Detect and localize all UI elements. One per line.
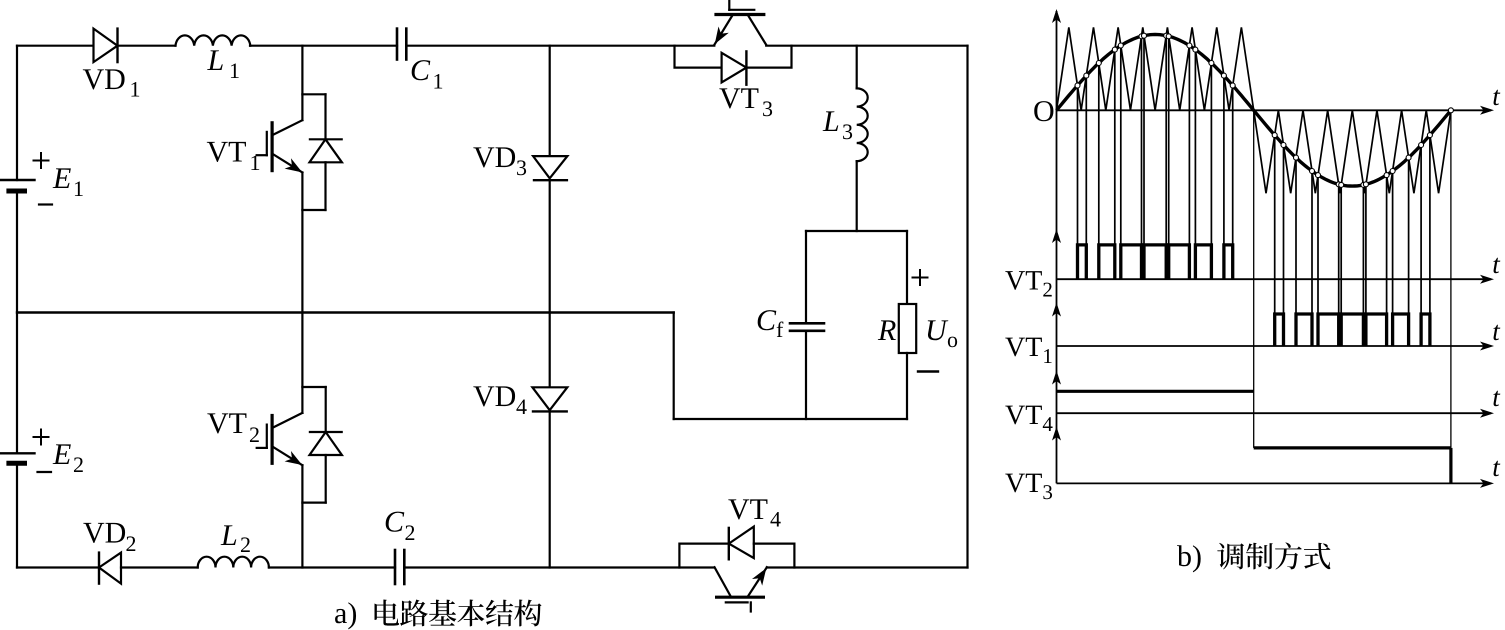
svg-text:4: 4 [770, 507, 781, 532]
wire VT3 falling edge [1449, 448, 1452, 484]
svg-text:1: 1 [250, 150, 261, 175]
transistor VT3 [714, 0, 766, 45]
svg-text:3: 3 [842, 119, 853, 144]
wire top bus segment 3 [250, 45, 397, 47]
wire O-axis t [1057, 109, 1492, 111]
node Uo minus sign [918, 370, 938, 372]
svg-text:2: 2 [73, 452, 84, 477]
wire R rail lower [906, 353, 908, 419]
svg-text:f: f [776, 317, 784, 342]
wire left rail upper [16, 46, 18, 180]
diode VD4 [532, 387, 567, 411]
svg-text:VD: VD [473, 380, 516, 413]
battery E2 [0, 453, 35, 463]
node VT3 gate waveform high second half [1254, 446, 1451, 449]
wire Cf rail lower [805, 331, 807, 419]
wire middle bus [17, 311, 674, 313]
node axis arrowheads [1052, 9, 1061, 23]
wire middle bus drop to load [673, 313, 675, 420]
svg-text:C: C [410, 54, 431, 87]
wire left rail lower [16, 463, 18, 567]
svg-text:L: L [220, 519, 238, 552]
wire top bus segment 2 [118, 45, 176, 47]
wire VD3 rail lower [549, 180, 551, 312]
node modulating sine wave [1057, 35, 1451, 187]
node VT4 gate waveform high first half [1057, 390, 1254, 393]
svg-text:E: E [52, 162, 71, 195]
transistor VT4 [715, 567, 767, 611]
svg-text:O: O [1033, 95, 1055, 128]
wire VT4-axis t [1057, 412, 1492, 414]
svg-text:o: o [947, 327, 958, 352]
inductor L1 [176, 35, 251, 45]
node Uo plus sign [913, 270, 928, 285]
diode VD3 [533, 156, 567, 180]
diode VD1 [94, 29, 118, 63]
svg-text:1: 1 [73, 176, 84, 201]
wire vertical axis [1056, 11, 1058, 483]
wire bottom bus segment 1 [17, 566, 99, 568]
inductor L3 [857, 46, 868, 231]
svg-text:3: 3 [516, 155, 527, 180]
capacitor C1 [397, 29, 406, 60]
wire top bus segment 4 [406, 45, 714, 47]
svg-text:VD: VD [473, 141, 516, 174]
svg-text:1: 1 [130, 77, 141, 102]
diode VT4 antiparallel [679, 527, 794, 568]
svg-text:L: L [822, 105, 840, 138]
svg-text:L: L [207, 44, 225, 77]
svg-text:a): a) [334, 597, 357, 630]
wire top bus segment 5 [766, 45, 967, 47]
battery E1 [0, 180, 35, 191]
svg-text:2: 2 [405, 520, 416, 545]
wire VT1-axis t [1057, 345, 1492, 347]
node E1 plus sign [34, 153, 49, 168]
svg-text:VT: VT [719, 82, 759, 115]
wire VD4 rail upper [549, 313, 551, 388]
svg-text:2: 2 [240, 532, 251, 557]
wire zero crossing line mid [1253, 110, 1255, 448]
diode VT2 antiparallel [302, 432, 342, 503]
transistor VT1 [257, 46, 326, 313]
wire bottom bus segment 2 [121, 566, 198, 568]
svg-text:2: 2 [126, 531, 137, 556]
wire bottom bus segment 5 [767, 566, 968, 568]
node triangular carrier second half [1254, 110, 1451, 193]
wire VT3-axis t [1057, 482, 1492, 484]
wire VD3 rail upper [549, 46, 551, 156]
svg-text:VD: VD [83, 63, 126, 96]
capacitor Cf [790, 323, 824, 331]
wire right rail [966, 46, 968, 568]
svg-text:U: U [925, 314, 949, 347]
wire sample drop lines second half [1275, 135, 1430, 346]
node E1 minus sign [39, 203, 52, 205]
inductor L2 [198, 557, 269, 568]
svg-text:VT: VT [728, 493, 768, 526]
svg-text:3: 3 [762, 96, 773, 121]
wire Cf rail upper [805, 231, 807, 323]
svg-text:VD: VD [83, 517, 126, 550]
svg-text:b): b) [1177, 540, 1202, 573]
wire load top [806, 230, 907, 232]
svg-text:1: 1 [229, 58, 240, 83]
wire R rail upper [906, 231, 908, 304]
wire top bus segment 1 [17, 45, 94, 47]
wire bottom bus segment 4 [404, 566, 713, 568]
wire sample drop lines first half [1078, 36, 1233, 280]
wire zero crossing line end [1450, 110, 1452, 448]
wire left rail middle [16, 191, 18, 453]
capacitor C2 [395, 550, 404, 584]
wire load bottom [674, 418, 907, 420]
svg-text:R: R [877, 314, 896, 347]
resistor R [899, 304, 916, 353]
wire bottom bus segment 3 [269, 566, 395, 568]
node VT1 pulse train [1275, 314, 1430, 346]
node E2 plus sign [34, 430, 49, 445]
node VT2 pulse train [1078, 245, 1233, 279]
node E2 minus sign [38, 471, 52, 473]
svg-text:4: 4 [516, 394, 527, 419]
svg-text:VT: VT [207, 407, 247, 440]
diode VD2 [99, 553, 121, 584]
diode VT1 antiparallel [302, 139, 342, 210]
svg-text:VT: VT [207, 136, 247, 169]
node triangular carrier first half [1057, 27, 1254, 110]
diode VT3 antiparallel [675, 46, 792, 85]
node intersection circles [1075, 33, 1453, 187]
svg-text:C: C [756, 304, 777, 337]
svg-text:2: 2 [249, 422, 260, 447]
svg-text:1: 1 [433, 69, 444, 94]
wire VD4 rail lower [549, 411, 551, 567]
svg-text:C: C [384, 506, 405, 539]
svg-text:E: E [52, 438, 71, 471]
transistor VT2 [257, 313, 326, 568]
wire VT2-axis t [1057, 278, 1492, 280]
